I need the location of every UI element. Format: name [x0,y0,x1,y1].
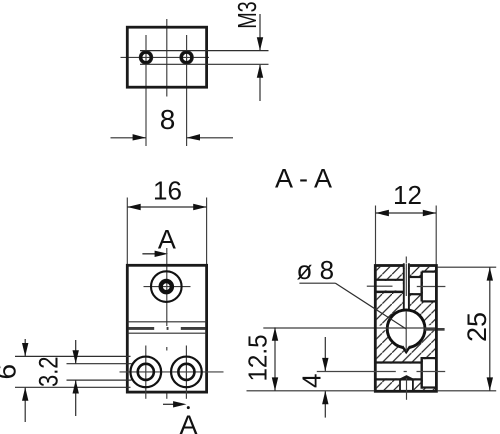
svg-text:16: 16 [153,176,182,206]
section: horizontal centerline through bore / 12.5 extension [263,327,437,329]
section: right counterbore outline [422,271,436,273]
top view: block outline 16x12 [127,27,206,87]
section: left M3 hole outline [375,279,403,281]
svg-text:3.2: 3.2 [34,357,64,388]
svg-text:M3: M3 [232,1,262,29]
front view: slot upper thin line [127,321,206,323]
dim 3.2 leader lines and arrows [75,340,77,363]
section: lower counterbore step [421,357,423,389]
dim 6 leader lines and arrows [24,339,26,356]
svg-text:A: A [179,410,197,434]
section: thread relief notch at circle bottom [402,346,410,352]
dim 4: leader lines with arrows [324,337,326,371]
section: slot gray bar right [425,328,445,331]
M3 dimension: lower leader with up arrow [259,65,261,101]
dimension 16: dimension line with outward arrows [127,206,206,208]
front view: upper hole M3 thick ring [161,281,172,292]
section: bottom tapped hole walls [399,380,401,391]
section: step between bores [421,272,423,302]
section: lower hole axis long centerline [317,371,445,373]
M3 dimension: tangent extension lines [140,50,269,52]
section: upper hole axis stub [417,286,446,288]
section: right small bore white [410,278,421,293]
front view: lower right hole centerline [185,346,187,399]
front view: lower holes horizontal centerline [120,371,224,373]
svg-text:12.5: 12.5 [243,335,273,382]
section: slot white band right [423,325,435,329]
dim 12: extension lines [375,206,377,265]
section: slot white band left [376,326,390,331]
svg-text:6: 6 [0,364,22,380]
section: central slit white channel [403,264,410,312]
section: left M3 hole white band [376,281,403,291]
svg-text:A - A: A - A [275,164,332,194]
dim 25: dimension line with outward arrows [489,267,491,391]
top view: left hole centerline / extension line for dim 8 [145,35,147,146]
section: lower right counterbore white [423,359,435,386]
svg-text:4: 4 [297,374,327,388]
M3 dimension: upper leader with down arrow [259,14,261,50]
section: lower screw hole band outline [375,361,421,363]
front view: lower left hole centerline [145,346,147,399]
dim 12.5: dimension line with outward arrows [274,327,276,390]
svg-text:25: 25 [462,312,492,342]
front view: slot dark bar with gaps [129,327,206,330]
o8 leader line [299,282,335,284]
section: bottom tapped hole white channel [399,379,414,390]
section: right counterbore white [423,273,435,301]
dim 3.2 extension lines [67,363,132,365]
front view: slot lower thin line [127,332,206,334]
top view: left M3 hole [139,51,152,64]
front view: lower left hole circles [130,357,161,388]
section: o8 bore circle [387,310,425,348]
dim 12.5: bottom extension line [247,390,375,392]
dim 12: dimension line with outward arrows [376,212,437,214]
dim 6 extension lines [15,355,131,357]
top view: right M3 hole [180,51,193,64]
section: lower counterbore outline [422,357,436,359]
top view: right hole centerline / extension line for dim 8 [186,35,188,146]
section: hatched block body [376,264,436,391]
front view: mid vertical centerline [166,248,168,326]
section: vertical centerline above block [405,257,407,264]
front view: upper hole counterbore circle [151,271,182,302]
section arrow (top) pointing right [142,253,158,255]
dimension 8: dimension line with inward arrows [111,137,147,139]
section: bottom tapped hole drill point [399,377,413,381]
dim 25: extension lines [438,266,497,268]
section: block outline [375,266,436,392]
front view: upper hole horizontal centerline [144,286,191,288]
front view: lower right hole circles [171,357,202,388]
svg-text:ø 8: ø 8 [297,255,335,285]
section: slit opening through top edge [403,263,410,269]
section: lower screw hole white band [376,364,422,379]
section: slit channel walls [403,264,405,311]
section: bore hole white circle [386,309,426,349]
top view: vertical mid centerline [166,19,168,97]
svg-text:12: 12 [393,180,422,210]
svg-text:8: 8 [160,104,176,135]
section: vertical centerline segments [405,264,407,297]
section arrow (bottom) pointing right [163,403,178,405]
top view: horizontal centerline through holes [121,56,210,58]
dimension 16: extension lines [126,198,128,265]
front view: block outline 16x25 [127,265,206,392]
section: right small bore outline [409,276,422,278]
